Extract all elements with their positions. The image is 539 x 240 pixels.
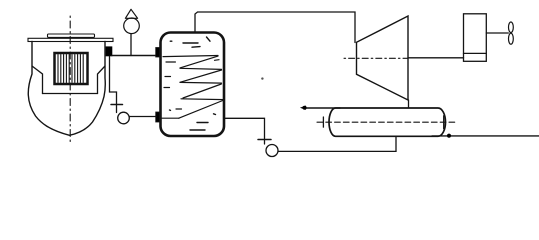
steam generator heating coil <box>161 56 224 119</box>
generator fan blades <box>509 22 514 44</box>
steam generator outlet stub <box>156 112 160 122</box>
reactor core (hatched) <box>55 53 88 84</box>
cooling water inlet line <box>432 135 539 137</box>
steam generator water level marks <box>170 37 210 47</box>
pipe: feedwater steam generator to pump <box>224 118 265 144</box>
reactor vessel centerline <box>69 16 71 144</box>
pressurizer triangle <box>125 9 137 18</box>
pipe: condenser to condensate pump <box>278 136 396 151</box>
condenser left tick <box>322 117 324 127</box>
reactor vessel flange <box>28 38 113 41</box>
condenser right tick <box>443 116 445 129</box>
pipe: turbine exhaust to condenser <box>408 100 410 108</box>
steam generator bottom marks <box>170 110 216 130</box>
valve tick on condensate line <box>258 139 271 141</box>
pipe: hot leg to steam generator <box>112 55 157 57</box>
reactor outlet nozzle <box>106 46 113 56</box>
generator fan shaft <box>486 32 508 34</box>
pressurizer surge line <box>130 34 132 56</box>
pipe: reactor cold leg down <box>110 56 117 112</box>
cooling water outlet with arrow <box>301 106 340 110</box>
reactor vessel head <box>48 34 95 37</box>
junction dot on cooling inlet <box>447 134 451 138</box>
pressurizer sphere <box>124 18 140 34</box>
turbine <box>357 16 409 100</box>
scan speck <box>261 77 263 79</box>
valve tick on cold leg <box>111 104 123 106</box>
shaft: turbine to generator <box>408 57 464 59</box>
primary pump <box>118 112 130 124</box>
pipe: main steam line <box>195 12 355 43</box>
generator <box>464 14 487 62</box>
pipe: pump to steam generator <box>129 116 156 118</box>
steam generator shell <box>161 33 225 137</box>
core support right <box>98 66 106 94</box>
core support left <box>32 66 43 94</box>
condenser centerline <box>317 121 456 123</box>
reactor vessel shell <box>28 42 105 136</box>
core support plate <box>43 93 98 95</box>
condenser shell <box>329 108 445 136</box>
turbine shaft centerline <box>344 57 408 59</box>
condensate pump <box>266 145 278 157</box>
steam generator inlet stub <box>156 48 160 58</box>
